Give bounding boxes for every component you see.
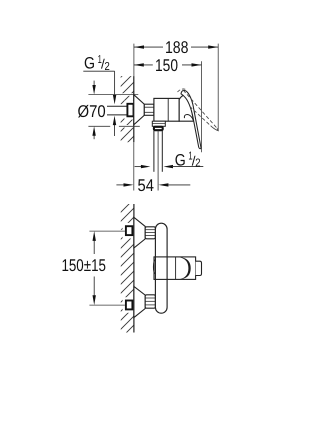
outlet collar [152,121,165,126]
dimension line 150+-15 [93,240,95,254]
dimension D70 extension lines [88,94,138,96]
clearance around lower square [123,297,136,313]
lower nut [145,295,155,308]
body [154,98,179,121]
extension line 150 right [201,61,203,152]
svg-text:2: 2 [195,158,200,170]
dimension 150 [134,64,202,66]
svg-text:Ø70: Ø70 [78,102,106,121]
svg-text:54: 54 [138,176,154,195]
lower escutcheon cone [134,286,145,317]
clearance for dim lines crossing hatch [120,93,138,96]
cartridge housing (front) [154,257,196,280]
end cap [196,261,202,275]
svg-text:G: G [175,151,186,169]
clearance around wall union square [124,101,136,120]
escutcheon (cone, side) [134,95,145,125]
upper escutcheon cone [134,217,145,248]
clearance around upper square [123,223,136,239]
wall face line [133,204,135,333]
extension line 150+-15 bottom [89,304,125,306]
left bulge on capsule [153,260,155,274]
wall (hatched) [121,204,134,333]
svg-text:150±15: 150±15 [61,256,106,275]
dimension 54 [116,184,125,186]
wall face extension line (down to 54 dim) [133,142,135,190]
lever handle (solid, closed position) [181,90,201,148]
supply pipe in wall [107,105,127,107]
svg-text:150: 150 [155,56,178,75]
upper wall square [126,226,132,235]
dome crescent [179,257,190,279]
union nut [144,104,154,115]
svg-text:G: G [84,55,95,73]
clearance around supply pipe [120,104,127,117]
outlet pipe [153,131,155,172]
dimension 188 [134,46,218,48]
svg-text:188: 188 [165,38,189,57]
upper nut [145,227,155,239]
G1/2 opposing arrow from below [114,124,116,136]
outlet diameter arrows + label G 1/2 (bottom) [135,166,143,168]
outlet nipple [154,127,163,130]
D70 arrows [93,81,95,87]
wall union square [127,104,133,117]
lower wall square [126,301,132,310]
wall face extension line (up to 188/150 dims) [133,44,135,77]
extension line 188 right [217,44,219,131]
wall face line [133,76,135,142]
lever finger hook [184,115,193,121]
cartridge cap (side) [179,95,193,121]
wall (hatched) [121,76,134,142]
label G 1/2 (top, wall supply) [84,54,110,73]
leader G1/2 top [83,70,114,72]
body capsule [155,223,167,313]
lever raised position (dashed) [178,89,219,131]
extension line 150+-15 top [89,230,125,232]
